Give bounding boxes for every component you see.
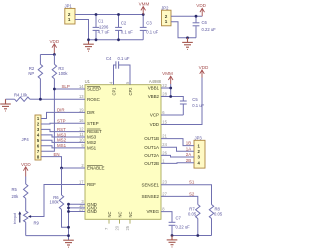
svg-text:19: 19 (79, 107, 84, 112)
pin NC stubs at IC bottom (109, 219, 130, 223)
wire SLP net to pin 14 (54, 88, 85, 90)
svg-text:CP1: CP1 (111, 87, 116, 96)
svg-text:VDD: VDD (199, 65, 209, 70)
connector JP2 (162, 10, 172, 26)
label R3 100k (58, 66, 68, 76)
wire OUT2A pin 26 to JP3 3 (161, 155, 194, 157)
trimmer arrow R9 (18, 211, 21, 222)
svg-text:VCP: VCP (150, 113, 159, 118)
svg-text:DIR: DIR (87, 110, 95, 115)
wire MS3 JP4 pin4 to pin 11 (41, 135, 85, 137)
wire R6 bottom to ground line (62, 209, 69, 227)
svg-text:NC: NC (107, 212, 112, 218)
svg-text:SLP: SLP (62, 84, 70, 89)
svg-text:VDD: VDD (49, 39, 59, 44)
wire RST JP4 pin3 to pin 12 (41, 129, 85, 131)
svg-text:S2: S2 (189, 191, 195, 196)
svg-text:VDD: VDD (21, 162, 31, 167)
label C3 value (146, 21, 158, 35)
svg-text:0.1 uF: 0.1 uF (192, 103, 204, 108)
svg-text:1: 1 (68, 17, 71, 22)
svg-text:R4 10k: R4 10k (14, 92, 28, 97)
overline SLEEP (87, 85, 100, 87)
svg-text:0.22 uF: 0.22 uF (202, 27, 217, 32)
junction dots top rail (87, 13, 145, 41)
svg-text:C6: C6 (202, 20, 208, 25)
pin names U1 right column (142, 86, 160, 215)
svg-text:JP3: JP3 (195, 135, 203, 140)
label R5 20k (12, 187, 20, 199)
svg-text:2: 2 (165, 14, 168, 19)
svg-text:MS2: MS2 (87, 140, 97, 145)
ground under JP2 (182, 38, 193, 50)
wire VMM top rail from JP1 pin 2 (75, 14, 143, 16)
svg-text:26: 26 (162, 150, 167, 155)
pin numbers U1 right column (162, 83, 167, 212)
svg-text:C7: C7 (176, 216, 182, 221)
power VDD top right (196, 3, 206, 16)
svg-text:OUT2A: OUT2A (144, 153, 159, 158)
svg-text:NC: NC (128, 212, 133, 218)
svg-text:VBB2: VBB2 (148, 94, 160, 99)
wire MS2 JP4 pin5 to pin 10 (41, 140, 85, 142)
pin CP2 rotated name and number 5 (125, 81, 133, 96)
wire OUT2B pin 1 to JP3 4 (161, 162, 194, 165)
svg-text:ROSC: ROSC (87, 97, 101, 102)
junction dots ground net left (67, 203, 70, 237)
svg-text:SENSE2: SENSE2 (142, 194, 160, 199)
power VDD above R2 R3 (49, 39, 59, 54)
wire VREG pin 8 to C7 (161, 212, 172, 223)
label C7 value (176, 216, 191, 230)
svg-text:JP4: JP4 (22, 137, 30, 142)
svg-text:C1: C1 (98, 19, 104, 24)
svg-text:R5: R5 (12, 187, 18, 192)
connector JP3 (194, 140, 205, 168)
wire SENSE1 pin 23 to R8 (161, 185, 212, 205)
svg-text:STEP: STEP (87, 121, 99, 126)
svg-text:28: 28 (162, 92, 167, 97)
svg-text:24: 24 (162, 142, 167, 147)
resistor R4 (6, 97, 41, 101)
junction dot EN (60, 167, 63, 170)
label C5 value (192, 97, 204, 108)
wire VBB2 pin 28 and C5 top (161, 97, 183, 102)
label R8 0.05 (214, 206, 223, 216)
pin names U1 left column (87, 87, 105, 215)
label R6 100k (50, 195, 60, 205)
svg-text:C4: C4 (106, 56, 112, 61)
svg-text:OUT1B: OUT1B (144, 136, 159, 141)
wire ROSC net to pin 13 (40, 98, 85, 100)
svg-text:MS3: MS3 (87, 135, 97, 140)
svg-text:0.1 uF: 0.1 uF (146, 30, 158, 35)
wire VBB1 pin 22 to VMM (161, 87, 171, 89)
svg-text:0.05: 0.05 (188, 211, 197, 216)
connector JP1 (65, 8, 75, 24)
wire JP2 pin 1 to ground (171, 22, 196, 38)
svg-text:1B: 1B (186, 141, 191, 146)
overline ENABLE (87, 164, 103, 166)
svg-text:2B: 2B (186, 158, 191, 163)
wiper arrowhead R9 (28, 215, 31, 218)
label C4 value (106, 56, 130, 61)
wire VCP pin 6 to C5 (161, 114, 183, 116)
svg-text:0.22 uF: 0.22 uF (176, 224, 191, 229)
svg-text:100k: 100k (50, 200, 60, 205)
svg-text:0.1 uF: 0.1 uF (121, 30, 133, 35)
svg-text:NC: NC (117, 212, 122, 218)
svg-text:VREG: VREG (146, 209, 159, 214)
svg-text:4.7 uF: 4.7 uF (98, 29, 110, 34)
resistor R9 trimmer (24, 211, 28, 236)
wire capacitor bottom rail (89, 39, 144, 41)
svg-text:MS2: MS2 (57, 138, 67, 143)
svg-text:R9: R9 (34, 221, 40, 226)
resistor R7 (196, 205, 200, 236)
svg-text:17: 17 (79, 180, 84, 185)
svg-text:16: 16 (79, 118, 84, 123)
svg-text:S1: S1 (189, 180, 195, 185)
wire OUT1A pin 24 to JP3 2 (161, 147, 194, 151)
svg-text:12: 12 (79, 127, 84, 132)
svg-text:MS1: MS1 (57, 143, 67, 148)
wire SLP vertical to JP4 pin 7 (41, 89, 54, 151)
op-amp U1 A4988 driver IC body (85, 85, 161, 220)
svg-text:1A: 1A (186, 146, 191, 151)
svg-text:STP: STP (57, 118, 66, 123)
svg-text:15: 15 (162, 120, 167, 125)
svg-text:SLEEP: SLEEP (87, 87, 101, 92)
ground bottom right (167, 236, 178, 247)
resistor R8 (209, 205, 213, 236)
svg-text:RST: RST (57, 127, 66, 132)
svg-text:29: 29 (79, 207, 84, 212)
junction dot ROSC (39, 98, 42, 101)
svg-text:trimpot: trimpot (13, 213, 17, 224)
wire MS1 JP4 pin6 to pin 9 (41, 146, 85, 148)
junction dots sense rail (171, 234, 200, 237)
resistor R3 (52, 55, 56, 90)
svg-text:JP2: JP2 (161, 5, 169, 10)
svg-text:CP2: CP2 (128, 87, 133, 96)
label R2 NP (28, 66, 34, 76)
svg-text:C2: C2 (121, 21, 127, 26)
wire EN JP4 pin8 down to ENABLE pin 2 (41, 157, 85, 168)
resistor R5 (24, 177, 28, 212)
junction dots VBB (169, 87, 172, 98)
svg-text:VDD: VDD (150, 122, 160, 127)
capacitor C5 (180, 101, 187, 115)
svg-text:MS3: MS3 (57, 132, 67, 137)
pin numbers U1 left column (79, 84, 84, 212)
svg-text:13: 13 (79, 94, 84, 99)
wire JP2 pin 2 to VDD (171, 15, 202, 17)
svg-text:SENSE1: SENSE1 (142, 182, 160, 187)
svg-text:0.1 uF: 0.1 uF (118, 56, 130, 61)
svg-text:A4988: A4988 (149, 79, 162, 84)
pin CP1 rotated name and number 4 (109, 81, 117, 96)
junction dot SLP (53, 88, 56, 91)
wire VBB vertical (170, 84, 172, 97)
ground under cap rail (83, 40, 94, 51)
capacitor C1 (93, 15, 100, 40)
svg-text:VBB1: VBB1 (148, 86, 160, 91)
ground at R4 (0, 99, 11, 111)
wire JP1 pin 1 to ground rail (75, 20, 89, 40)
svg-text:VDD: VDD (196, 3, 206, 8)
label C2 value (121, 21, 133, 35)
svg-text:21: 21 (162, 134, 167, 139)
capacitor C4 between CP1 and CP2 (114, 61, 131, 84)
resistor R6 (59, 168, 63, 209)
svg-text:20: 20 (115, 225, 120, 230)
capacitor C2 (115, 15, 122, 40)
svg-text:20k: 20k (12, 194, 20, 199)
wire SENSE2 pin 27 to R7 (161, 196, 198, 204)
svg-text:11: 11 (79, 132, 84, 137)
ground bottom left (63, 240, 74, 247)
svg-text:14: 14 (79, 84, 84, 89)
svg-text:25: 25 (125, 225, 130, 230)
svg-text:100k: 100k (58, 71, 68, 76)
connector JP4 (35, 115, 41, 160)
wire OUT1B pin 21 to JP3 1 (161, 139, 194, 146)
svg-text:0.05: 0.05 (214, 211, 223, 216)
svg-text:DIR: DIR (57, 108, 65, 113)
pin NC rotated names and numbers 7 20 25 (104, 212, 133, 231)
wire REF net to pin 17 (30, 185, 86, 217)
wire VDD to R2 R3 tops (40, 54, 54, 56)
svg-text:JP1: JP1 (65, 4, 73, 9)
wire STP JP4 pin2 to pin 16 (41, 122, 85, 125)
svg-text:EN: EN (54, 152, 60, 157)
svg-text:VMM: VMM (162, 71, 173, 76)
junction dot VDD split (53, 53, 56, 56)
capacitor C7 (169, 222, 176, 235)
svg-text:MS1: MS1 (87, 146, 97, 151)
svg-text:22: 22 (162, 83, 167, 88)
svg-text:NP: NP (28, 71, 34, 76)
svg-text:C3: C3 (146, 21, 152, 26)
svg-text:2A: 2A (186, 152, 191, 157)
svg-text:23: 23 (162, 180, 167, 185)
svg-text:27: 27 (162, 191, 167, 196)
svg-text:C5: C5 (192, 97, 198, 102)
power VDD above R5 (21, 162, 31, 177)
wire sense ground rail (172, 235, 212, 237)
svg-text:REF: REF (87, 182, 96, 187)
wire VDD pin 15 (161, 78, 202, 125)
label C1 value (98, 19, 110, 35)
svg-text:OUT1A: OUT1A (144, 145, 159, 150)
svg-text:VMM: VMM (139, 1, 150, 6)
capacitor C3 (140, 15, 147, 40)
svg-text:U1: U1 (85, 79, 91, 84)
power VMM top (139, 1, 150, 14)
resistor R2 (38, 55, 42, 100)
wire GND pins of U1 (69, 204, 86, 240)
wire DIR JP4 pin1 to pin 19 (41, 112, 85, 118)
svg-text:1: 1 (165, 19, 168, 24)
svg-text:GND: GND (87, 209, 98, 214)
junction dots JP2 net (186, 15, 197, 39)
svg-text:OUT2B: OUT2B (144, 161, 159, 166)
power VDD right (199, 65, 209, 78)
svg-text:10: 10 (79, 137, 84, 142)
svg-text:RESET: RESET (87, 129, 102, 134)
label C6 value (202, 20, 217, 32)
label R7 0.05 (188, 206, 197, 216)
overline RESET (87, 128, 100, 130)
power VMM above VBB pins (162, 71, 173, 84)
svg-text:ENABLE: ENABLE (87, 166, 105, 171)
capacitor C6 (193, 16, 200, 38)
wire R9 bottom rail to ground (26, 235, 69, 237)
